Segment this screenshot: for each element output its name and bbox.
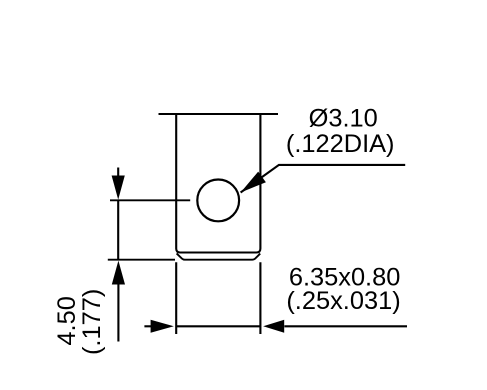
svg-text:(.122DIA): (.122DIA) [286,130,395,158]
vertical dimension line segment [117,200,119,259]
part lower body right edge [259,262,261,334]
vertical dimension up-arrow tail [117,284,119,342]
part upper body outline [176,113,260,253]
part crimp flare lip [177,253,261,259]
svg-text:(.177): (.177) [78,289,106,355]
svg-text:4.50: 4.50 [53,296,81,345]
width dimension right arrowhead (points left) [263,320,284,333]
vertical dimension down-arrow tail [117,168,119,178]
leader line [241,165,406,193]
vertical dimension down-arrowhead [112,176,125,200]
part lower body left edge [175,262,177,334]
width dimension line [176,325,260,327]
leader arrowhead to hole [241,172,266,193]
extension line at hole center [110,199,190,201]
svg-text:(.25x.031): (.25x.031) [286,287,400,315]
vertical dimension label 4.50 (.177) rotated [53,289,106,355]
vertical dimension up-arrowhead [112,261,125,285]
part top edge [159,113,279,115]
hole circle [197,180,239,222]
svg-text:Ø3.10: Ø3.10 [309,105,378,133]
width dimension left arrow tail [144,325,153,327]
width dimension left arrowhead (points right) [151,320,174,333]
width dimension right arrow tail [284,325,407,327]
extension line at flare lip [108,259,175,261]
